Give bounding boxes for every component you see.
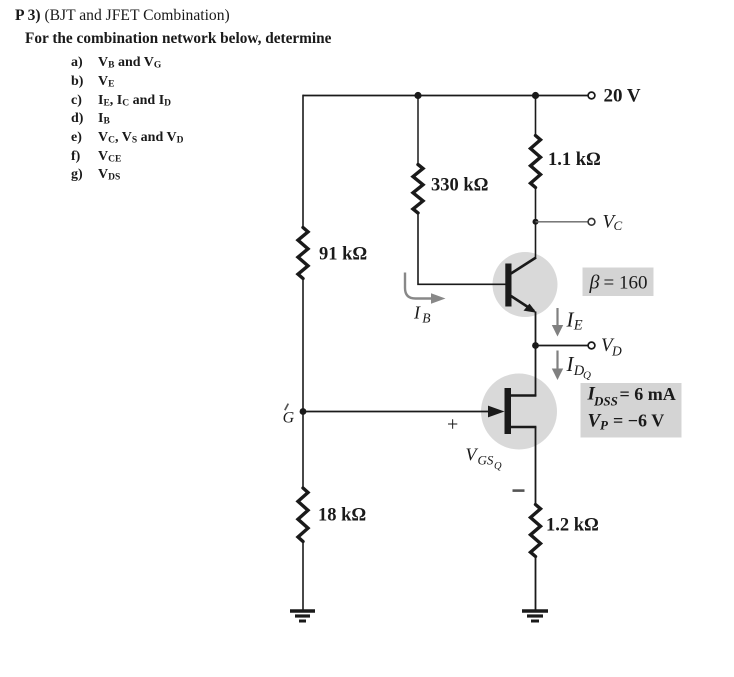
wire right branch upper (535, 95, 537, 134)
svg-text:E: E (573, 318, 583, 334)
svg-text:Q: Q (494, 461, 502, 472)
wire left branch lower (302, 543, 304, 610)
wire left branch upper (302, 95, 304, 226)
item a (71, 55, 83, 71)
ground left (290, 611, 315, 621)
transistor Q1 BJT symbol (505, 258, 536, 313)
current arrow IE (552, 308, 563, 337)
prompt line (25, 30, 331, 48)
wire source down (535, 427, 537, 503)
node top-right junction (532, 92, 539, 99)
label 1.2 kOhm (546, 516, 599, 536)
item b (71, 74, 83, 90)
transistor Q2 shaded circle (481, 374, 557, 450)
svg-text:B: B (422, 311, 430, 326)
node label G (283, 404, 295, 427)
ground right (522, 611, 548, 621)
box IDSS VP (581, 383, 682, 438)
svg-text:= −6 V: = −6 V (613, 411, 664, 431)
svg-text:β: β (589, 272, 600, 294)
transistor Q2 JFET symbol (505, 388, 537, 434)
node G junction (300, 408, 307, 415)
svg-text:330 kΩ: 330 kΩ (431, 176, 488, 196)
wire middle branch upper (417, 96, 419, 164)
svg-text:P: P (600, 418, 609, 433)
label 330 kOhm (431, 176, 488, 196)
wire drain up (535, 346, 537, 397)
resistor R4 1.1 kOhm (531, 136, 541, 188)
title line (15, 7, 230, 25)
wire middle branch to base (418, 215, 506, 285)
wire VC stub (536, 221, 589, 223)
wire VD stub (536, 345, 589, 347)
transistor Q1 shaded circle (493, 252, 558, 317)
svg-text:I: I (413, 303, 421, 323)
label IB (413, 303, 431, 326)
svg-text:GS: GS (478, 453, 494, 468)
box beta = 160 (583, 268, 654, 297)
gate arrowhead (488, 406, 505, 418)
label VD (601, 335, 622, 359)
label 20 V (604, 85, 641, 106)
label 18 kOhm (318, 506, 366, 526)
node top-middle junction (414, 92, 421, 99)
svg-text:= 6 mA: = 6 mA (620, 384, 676, 404)
node VC junction (533, 219, 539, 225)
terminal VD (588, 342, 595, 349)
resistor R2 18 kOhm (298, 488, 308, 542)
label IE (566, 308, 583, 334)
item g (71, 167, 83, 183)
svg-text:= 160: = 160 (604, 273, 648, 294)
current arrow IDQ (552, 351, 563, 381)
label minus (513, 489, 525, 492)
svg-text:C: C (614, 218, 623, 233)
current arrow IB (405, 273, 446, 304)
wire emitter down (535, 312, 537, 347)
wire gate (303, 411, 492, 413)
resistor R3 330 kOhm (413, 165, 423, 214)
svg-text:91 kΩ: 91 kΩ (319, 245, 367, 265)
svg-text:20 V: 20 V (604, 85, 641, 106)
svg-text:1.2 kΩ: 1.2 kΩ (546, 516, 599, 536)
label VGSQ (466, 445, 503, 473)
svg-text:DSS: DSS (593, 394, 618, 409)
item d (71, 111, 83, 127)
svg-text:Q: Q (583, 370, 591, 382)
label 1.1 kOhm (548, 150, 601, 170)
label 91 kOhm (319, 245, 367, 265)
label plus (447, 414, 458, 436)
wire top rail (303, 95, 588, 97)
svg-text:+: + (447, 414, 458, 436)
svg-text:D: D (611, 344, 622, 359)
terminal 20 V (588, 92, 595, 99)
wire left branch middle (302, 280, 304, 487)
item e (71, 130, 82, 146)
node VD junction (532, 342, 539, 349)
wire right branch lower (535, 558, 537, 610)
terminal VC (588, 218, 595, 225)
svg-text:1.1 kΩ: 1.1 kΩ (548, 150, 601, 170)
label VC (603, 212, 623, 234)
svg-text:G: G (283, 410, 295, 427)
resistor R1 91 kOhm (298, 228, 308, 279)
item f (71, 149, 80, 165)
resistor R5 1.2 kOhm (531, 505, 541, 557)
item c (71, 93, 82, 109)
wire right branch to collector (535, 189, 537, 258)
svg-text:18 kΩ: 18 kΩ (318, 506, 366, 526)
label IDQ (566, 352, 592, 382)
